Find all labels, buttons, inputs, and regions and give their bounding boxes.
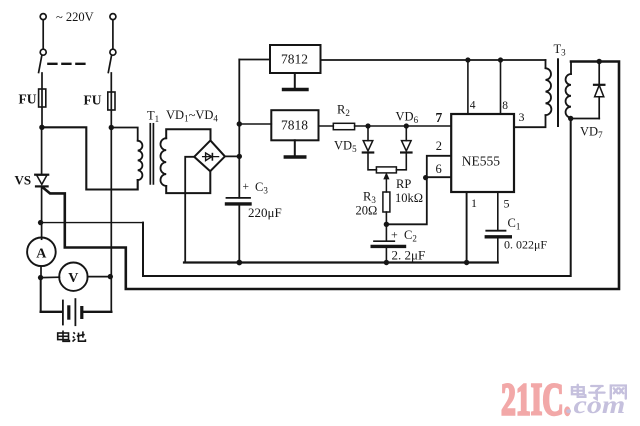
svg-text:5: 5 xyxy=(504,197,510,211)
svg-text:6: 6 xyxy=(436,162,442,176)
svg-text:V: V xyxy=(68,271,78,286)
svg-text:1: 1 xyxy=(471,196,477,210)
svg-text:+: + xyxy=(243,181,250,193)
svg-text:10kΩ: 10kΩ xyxy=(395,191,423,205)
svg-text:220μF: 220μF xyxy=(248,205,282,220)
svg-text:.com: .com xyxy=(566,391,625,419)
svg-text:7818: 7818 xyxy=(281,118,308,133)
svg-text:VD1~VD4: VD1~VD4 xyxy=(166,108,218,124)
svg-text:+: + xyxy=(391,228,398,242)
svg-text:VS: VS xyxy=(15,173,32,188)
svg-text:4: 4 xyxy=(470,100,476,112)
svg-text:20Ω: 20Ω xyxy=(356,204,378,218)
svg-text:21IC.: 21IC. xyxy=(501,376,571,426)
svg-text:3: 3 xyxy=(519,110,525,124)
svg-text:8: 8 xyxy=(502,100,508,112)
svg-text:FU: FU xyxy=(84,93,102,108)
svg-text:0. 022μF: 0. 022μF xyxy=(504,238,547,252)
svg-text:A: A xyxy=(36,246,47,261)
svg-text:~ 220V: ~ 220V xyxy=(56,10,94,24)
svg-text:7812: 7812 xyxy=(281,52,308,67)
svg-text:NE555: NE555 xyxy=(462,154,500,169)
svg-text:RP: RP xyxy=(396,177,411,191)
svg-text:2: 2 xyxy=(436,139,442,153)
svg-text:FU: FU xyxy=(19,92,37,107)
svg-text:2. 2μF: 2. 2μF xyxy=(392,248,426,263)
svg-text:7: 7 xyxy=(436,110,443,125)
